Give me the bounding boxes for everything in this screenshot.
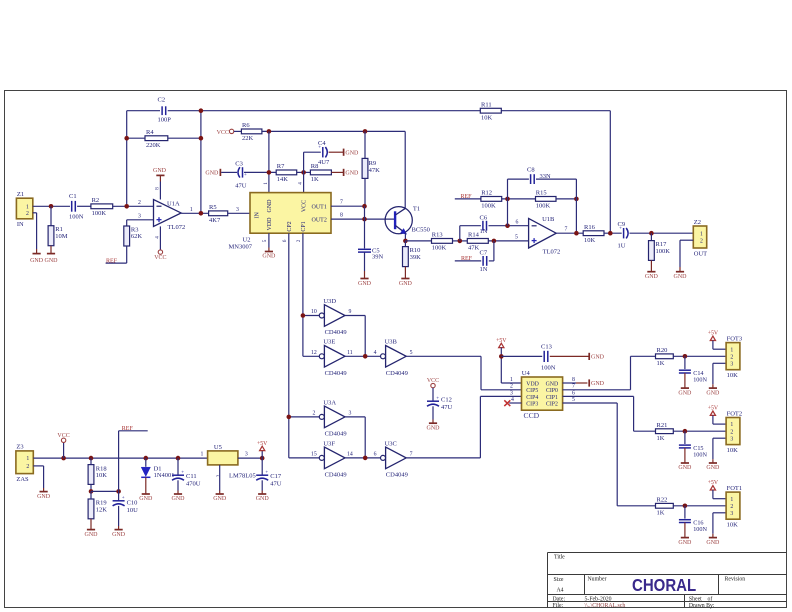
svg-text:1: 1 <box>730 347 733 353</box>
wire C10 bottom <box>118 506 120 526</box>
svg-text:R21: R21 <box>657 422 668 429</box>
net label REF at R3 <box>106 258 118 264</box>
svg-text:+5V: +5V <box>708 406 719 412</box>
transistor T1 BC550 <box>385 206 430 235</box>
wire C15 top <box>684 431 686 444</box>
ground U4 pin8 <box>589 379 604 387</box>
wire REF to R12 <box>455 198 481 200</box>
svg-text:100K: 100K <box>432 245 447 252</box>
wire VCC port stub <box>63 443 65 459</box>
svg-text:+: + <box>122 496 125 501</box>
ground C15 <box>678 448 692 471</box>
wire C4 vertical <box>303 152 305 192</box>
svg-text:100K: 100K <box>536 203 551 210</box>
svg-text:REF: REF <box>122 426 134 432</box>
wire VCC to R6 <box>234 130 242 132</box>
wire R12 to R15 <box>502 198 536 200</box>
svg-text:8: 8 <box>154 187 160 190</box>
wire U4 GND pin <box>563 382 576 384</box>
junction R7 left <box>267 170 272 175</box>
svg-text:Revision: Revision <box>725 576 746 582</box>
svg-text:REF: REF <box>461 256 473 262</box>
svg-text:5: 5 <box>515 235 518 241</box>
svg-text:R16: R16 <box>584 224 596 231</box>
svg-text:7: 7 <box>572 384 575 390</box>
capacitor C5 <box>358 248 384 261</box>
svg-text:2: 2 <box>216 474 222 477</box>
connector FOT1 <box>726 485 742 529</box>
junction divider <box>89 489 94 494</box>
wire REF up <box>119 431 148 492</box>
svg-text:OUT1: OUT1 <box>312 205 327 211</box>
ground U5 <box>213 491 227 503</box>
wire U2 CP1 to inverters <box>303 233 319 356</box>
wire R6 node down <box>268 131 270 192</box>
svg-text:OUT2: OUT2 <box>312 218 327 224</box>
svg-text:1: 1 <box>201 452 204 458</box>
wire C17 bottom <box>261 480 263 490</box>
svg-text:VDD: VDD <box>267 217 273 231</box>
pin number 7 of U2 <box>340 200 343 206</box>
svg-text:CIP1: CIP1 <box>546 395 558 401</box>
svg-text:14: 14 <box>347 452 353 458</box>
svg-text:CIP2: CIP2 <box>546 401 558 407</box>
wire R21 to FOT2 <box>673 430 726 432</box>
capacitor C8 <box>527 167 551 185</box>
capacitor C2 <box>158 97 172 124</box>
svg-text:2: 2 <box>730 429 733 435</box>
junction U1A inverting node <box>124 204 129 209</box>
svg-text:1: 1 <box>263 182 269 185</box>
power +5V U4 <box>496 338 507 348</box>
junction U3A-U3F out <box>363 456 368 461</box>
svg-text:C6: C6 <box>480 215 488 222</box>
inverter U3B <box>374 339 413 377</box>
capacitor C11 <box>172 471 201 488</box>
svg-text:GND: GND <box>358 281 372 287</box>
svg-text:C4: C4 <box>318 140 326 147</box>
resistor R19 <box>88 499 107 519</box>
resistor R6 <box>241 122 262 142</box>
svg-text:Z2: Z2 <box>694 219 701 226</box>
IC U4 CCD <box>510 370 575 420</box>
wire R1 top <box>50 206 52 225</box>
svg-text:10K: 10K <box>727 447 739 454</box>
junction C11 <box>176 456 181 461</box>
svg-text:C11: C11 <box>186 473 197 480</box>
svg-text:4: 4 <box>154 236 160 239</box>
svg-text:REF: REF <box>461 194 473 200</box>
wire R11 to output node <box>501 111 610 234</box>
wire U4 GND red segment <box>576 382 587 384</box>
svg-text:47U: 47U <box>235 182 247 189</box>
svg-text:CD4049: CD4049 <box>325 370 347 377</box>
svg-text:8: 8 <box>572 377 575 383</box>
svg-text:Date:: Date: <box>553 596 566 602</box>
svg-text:CIP4: CIP4 <box>526 395 538 401</box>
ground C12 <box>427 420 441 432</box>
net label REF at C7 <box>461 256 473 262</box>
svg-text:9: 9 <box>348 309 351 315</box>
wire U2 OUT2 to T1 base <box>331 218 395 220</box>
svg-text:62K: 62K <box>131 233 143 240</box>
resistor R16 <box>583 224 604 244</box>
power VCC rail <box>57 433 69 443</box>
ground R1 <box>45 246 59 264</box>
svg-text:22K: 22K <box>242 135 254 142</box>
resistor R9 <box>362 158 380 178</box>
wire R17 top <box>650 233 652 240</box>
svg-text:VCC: VCC <box>217 130 229 136</box>
inverter U3F <box>311 440 353 478</box>
wire U1A pin8 <box>159 182 161 200</box>
svg-text:1: 1 <box>730 422 733 428</box>
junction R18 top <box>89 456 94 461</box>
svg-text:1: 1 <box>730 497 733 503</box>
ground U1A pin8 <box>153 168 167 182</box>
svg-text:1N4001: 1N4001 <box>154 472 175 479</box>
ground C13 <box>550 353 605 361</box>
inverter U3E <box>311 339 353 377</box>
svg-text:2: 2 <box>700 238 703 244</box>
wire R4 right <box>168 137 201 139</box>
svg-text:C3: C3 <box>235 160 243 167</box>
junction C9 right <box>649 231 654 236</box>
svg-text:1N: 1N <box>480 266 488 273</box>
svg-text:U3B: U3B <box>385 339 398 346</box>
svg-text:CD4049: CD4049 <box>386 472 408 479</box>
wire U5 output <box>238 457 262 459</box>
svg-text:1: 1 <box>26 456 29 462</box>
svg-text:GND: GND <box>262 254 276 260</box>
svg-text:\\..\CHORAL.sch: \\..\CHORAL.sch <box>585 603 626 609</box>
svg-text:of: of <box>708 595 713 602</box>
svg-text:Drawn By:: Drawn By: <box>689 603 715 609</box>
svg-text:CD4049: CD4049 <box>325 329 347 336</box>
pin number 8 of U2 <box>340 212 343 218</box>
inverter U3D <box>311 298 351 336</box>
wire REF to C7 <box>455 260 481 262</box>
wire R3 top <box>126 220 128 226</box>
svg-text:A4: A4 <box>557 587 564 593</box>
svg-text:2: 2 <box>26 464 29 470</box>
svg-text:+5V: +5V <box>708 331 719 337</box>
svg-text:CHORAL: CHORAL <box>632 575 696 595</box>
svg-text:Z3: Z3 <box>16 444 23 451</box>
wire R16 to C9 <box>604 232 622 234</box>
svg-text:+: + <box>265 471 268 476</box>
svg-text:U3A: U3A <box>323 399 336 406</box>
svg-text:CCD: CCD <box>524 411 540 420</box>
junction R12 right <box>505 197 510 202</box>
svg-text:Sheet: Sheet <box>689 596 702 602</box>
junction R20 C14 <box>683 354 688 359</box>
junction R6 right <box>267 129 272 134</box>
svg-text:BC550: BC550 <box>412 227 430 234</box>
svg-text:CP2: CP2 <box>287 221 293 231</box>
svg-text:U1A: U1A <box>167 201 180 208</box>
wire R9 bottom <box>364 178 366 206</box>
svg-text:Number: Number <box>588 576 607 582</box>
wire C17 top <box>261 458 263 475</box>
svg-text:5: 5 <box>410 350 413 356</box>
svg-text:FOT3: FOT3 <box>727 335 743 342</box>
capacitor C9 <box>618 221 629 250</box>
svg-text:6: 6 <box>516 219 519 225</box>
ground R19 <box>85 519 99 538</box>
wire CP2 branch to U3A <box>289 416 319 418</box>
wire R5 to U2 <box>228 212 250 214</box>
svg-text:1K: 1K <box>657 360 665 367</box>
no-connect X on U4 pin4 <box>504 400 521 406</box>
svg-text:R7: R7 <box>277 163 285 170</box>
svg-text:GND: GND <box>153 168 167 174</box>
svg-text:R15: R15 <box>536 190 547 197</box>
svg-text:VCC: VCC <box>57 433 69 439</box>
inverter U3C <box>374 440 413 478</box>
svg-text:10: 10 <box>311 309 317 315</box>
svg-text:OUT: OUT <box>694 250 707 257</box>
svg-text:3: 3 <box>730 361 733 367</box>
ground C3 <box>205 169 220 177</box>
svg-text:U3D: U3D <box>323 298 336 305</box>
IC U2 MN3007 <box>229 182 332 251</box>
svg-text:GND: GND <box>591 355 605 361</box>
svg-text:4: 4 <box>374 350 377 356</box>
inverter U3A <box>312 399 351 437</box>
svg-text:GND: GND <box>591 381 605 387</box>
svg-text:FOT1: FOT1 <box>727 485 743 492</box>
svg-text:39N: 39N <box>372 254 384 261</box>
svg-text:2: 2 <box>312 411 315 417</box>
svg-text:7: 7 <box>340 200 343 206</box>
wire +5V port stub <box>261 451 263 458</box>
resistor R12 <box>481 190 502 210</box>
svg-text:14K: 14K <box>277 176 289 183</box>
wire FOT3 pin3 to ground <box>713 363 726 384</box>
svg-text:R20: R20 <box>657 347 668 354</box>
svg-text:5: 5 <box>572 397 575 403</box>
svg-text:R13: R13 <box>432 232 443 239</box>
wire FOT2 pin3 to ground <box>713 438 726 459</box>
svg-text:C13: C13 <box>541 344 552 351</box>
capacitor C3 <box>235 160 247 189</box>
svg-text:GND: GND <box>678 465 692 471</box>
svg-text:470U: 470U <box>186 480 201 487</box>
wire R22 to FOT1 <box>673 505 726 507</box>
ground Z1 pin2 <box>30 249 44 264</box>
ground R8 <box>331 169 359 177</box>
svg-text:4: 4 <box>511 397 514 403</box>
wire feedback right vertical <box>200 111 202 214</box>
svg-text:R4: R4 <box>146 129 154 136</box>
svg-text:4U7: 4U7 <box>318 159 330 166</box>
title block texts <box>553 555 746 609</box>
wire C5 to ground <box>364 252 366 271</box>
ground D1 <box>139 477 153 502</box>
svg-text:CD4049: CD4049 <box>325 472 347 479</box>
ground C16 <box>678 523 692 546</box>
svg-text:GND: GND <box>112 532 126 538</box>
svg-text:100N: 100N <box>693 526 707 533</box>
svg-text:3: 3 <box>348 411 351 417</box>
svg-text:VCC: VCC <box>154 255 166 261</box>
capacitor C12 <box>427 397 453 411</box>
wire C1 to R2 <box>77 205 91 207</box>
wire U2 VDD pin down <box>268 233 270 247</box>
wire U2 CP2 to inverters <box>289 233 319 458</box>
wire R13 to R14 <box>453 240 468 242</box>
net label REF at R12 <box>461 194 473 200</box>
wire U3B out to CIP5 <box>406 356 521 390</box>
svg-text:R11: R11 <box>481 102 492 109</box>
svg-text:2: 2 <box>730 354 733 360</box>
svg-text:100N: 100N <box>69 214 84 221</box>
resistor R15 <box>536 190 557 210</box>
svg-text:VDD: VDD <box>526 381 539 387</box>
wire U3F out <box>345 457 380 459</box>
resistor R1 <box>48 226 68 246</box>
wire Z3 pin2 <box>33 466 43 488</box>
svg-text:1K: 1K <box>311 176 319 183</box>
resistor R22 <box>656 497 674 517</box>
resistor R2 <box>91 197 113 217</box>
svg-text:C9: C9 <box>618 221 626 228</box>
wire C4 branch <box>304 151 321 153</box>
title block grid <box>548 553 787 608</box>
svg-text:15: 15 <box>311 452 317 458</box>
svg-text:CD4049: CD4049 <box>325 431 347 438</box>
svg-text:GND: GND <box>30 258 44 264</box>
svg-text:GND: GND <box>706 390 720 396</box>
junction R14 right <box>492 239 497 244</box>
svg-text:8: 8 <box>340 212 343 218</box>
svg-text:39K: 39K <box>410 254 422 261</box>
net label REF supply <box>122 426 134 432</box>
pin number 3 of U2 <box>236 207 239 213</box>
svg-text:4: 4 <box>298 182 304 185</box>
ground U2 VDD <box>262 248 276 260</box>
svg-text:Size: Size <box>554 577 564 583</box>
svg-text:GND: GND <box>45 258 59 264</box>
svg-text:R22: R22 <box>657 497 668 504</box>
capacitor C13 <box>541 344 556 372</box>
op-amp U1B <box>515 216 568 256</box>
svg-text:GND: GND <box>85 532 99 538</box>
svg-text:3: 3 <box>730 511 733 517</box>
resistor R4 <box>145 129 168 149</box>
wire U1A output <box>181 212 209 214</box>
connector Z1 <box>16 191 32 228</box>
ground C4 <box>329 149 359 157</box>
resistor R11 <box>480 102 501 122</box>
svg-text:1K: 1K <box>657 510 665 517</box>
wire R10 top <box>404 241 406 247</box>
svg-text:MN3007: MN3007 <box>229 243 253 250</box>
svg-text:3: 3 <box>730 436 733 442</box>
svg-text:GND: GND <box>345 150 359 156</box>
ground C10 <box>112 526 126 538</box>
wire C2 to R11 net <box>168 110 481 112</box>
svg-text:47K: 47K <box>369 167 381 174</box>
svg-text:C2: C2 <box>158 97 166 104</box>
svg-text:47K: 47K <box>468 245 480 252</box>
svg-text:7: 7 <box>410 452 413 458</box>
svg-text:10K: 10K <box>727 522 739 529</box>
svg-text:12: 12 <box>311 350 317 356</box>
wire C6 branch <box>460 226 481 241</box>
resistor R8 <box>310 163 331 183</box>
svg-text:VCC: VCC <box>301 200 307 212</box>
resistor R18 <box>88 465 107 485</box>
ground C11 <box>172 491 186 503</box>
svg-text:CIP5: CIP5 <box>526 388 538 394</box>
wire U5 pin2 <box>219 465 221 491</box>
svg-text:2: 2 <box>730 504 733 510</box>
svg-text:T1: T1 <box>413 206 420 213</box>
svg-text:100N: 100N <box>541 365 556 372</box>
svg-text:10U: 10U <box>127 507 139 514</box>
svg-text:GND: GND <box>706 465 720 471</box>
wire C8 left vertical <box>507 179 509 226</box>
junction C6 node <box>505 223 510 228</box>
capacitor C6 <box>480 215 488 236</box>
wire CIP2 to R22 <box>563 403 656 506</box>
junction U3D-U3E out <box>363 354 368 359</box>
power +5V FOT3 <box>708 331 719 341</box>
wire U3E out <box>345 355 380 357</box>
svg-text:C17: C17 <box>270 473 282 480</box>
svg-text:100K: 100K <box>656 248 671 255</box>
junction REF C10 <box>116 489 121 494</box>
svg-text:10K: 10K <box>584 237 596 244</box>
svg-text:R5: R5 <box>209 204 217 211</box>
svg-text:Title: Title <box>554 555 565 561</box>
wire C7 branch <box>489 241 494 261</box>
svg-text:C12: C12 <box>441 397 452 404</box>
svg-text:47U: 47U <box>270 480 282 487</box>
capacitor C1 <box>69 193 84 221</box>
svg-text:6: 6 <box>374 452 377 458</box>
wire C11 top <box>177 458 179 475</box>
junction CP1 at U3D <box>301 313 306 318</box>
svg-text:1K: 1K <box>657 435 665 442</box>
junction R4 left <box>124 136 129 141</box>
capacitor C17 <box>256 471 282 488</box>
diode D1 1N4001 <box>141 458 174 479</box>
wire R15 right <box>556 198 576 200</box>
svg-text:5-Feb-2020: 5-Feb-2020 <box>585 596 612 602</box>
wire Z1 pin1 to C1 <box>33 205 70 207</box>
svg-text:6: 6 <box>572 390 575 396</box>
wire R2 to U1A pin2 <box>113 205 154 207</box>
wire R9 top <box>364 131 366 158</box>
svg-text:GND: GND <box>678 390 692 396</box>
junction R7-R8 <box>301 170 306 175</box>
svg-text:File:: File: <box>553 603 564 609</box>
wire R3 to REF <box>106 246 127 263</box>
svg-text:+: + <box>181 471 184 476</box>
svg-text:FOT2: FOT2 <box>727 410 743 417</box>
wire CIP1 to R21 <box>563 396 656 431</box>
svg-text:R6: R6 <box>242 122 250 129</box>
svg-text:3: 3 <box>138 214 141 220</box>
wire emitter to R13 <box>405 240 431 242</box>
svg-text:100K: 100K <box>481 203 496 210</box>
connector FOT2 <box>726 410 742 454</box>
svg-text:11: 11 <box>347 350 353 356</box>
wire main supply rail <box>33 457 207 459</box>
